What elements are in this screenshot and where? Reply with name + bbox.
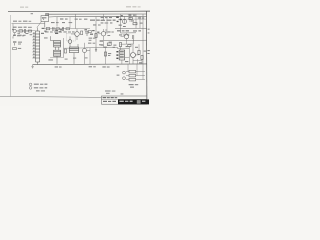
- transistor Q7: [131, 53, 136, 58]
- capacitor C6: [133, 35, 134, 44]
- label top mid-right rows: [101, 17, 113, 24]
- label lower mid: [65, 38, 96, 60]
- label right of Q3: [107, 31, 116, 45]
- capacitor C3: [62, 27, 63, 31]
- title block bar text: [119, 101, 145, 102]
- legend circle B: [29, 87, 32, 90]
- connector J1 pin stubs: [32, 34, 35, 58]
- wire feed line x70: [69, 17, 71, 28]
- wire Q3 leads: [98, 29, 106, 48]
- rectifier D1 cluster: [116, 15, 123, 22]
- wire Q7 leads: [133, 44, 139, 64]
- wire right lower verticals: [129, 44, 142, 64]
- wire drop x128: [127, 64, 129, 72]
- resistor R18: [107, 43, 111, 45]
- label row band: [13, 27, 32, 36]
- label right top: [117, 15, 144, 36]
- resistor R3: [46, 28, 50, 30]
- transistor Q2: [75, 32, 80, 37]
- transistor Q1: [13, 29, 16, 32]
- label mains: [55, 66, 58, 67]
- wire Q6 leads: [121, 33, 127, 44]
- wire vertical x103.5: [100, 14, 104, 20]
- label T1: [42, 17, 46, 18]
- resistor R12: [133, 23, 137, 25]
- title block corner mark: [121, 93, 124, 94]
- label row above input bus: [13, 21, 31, 22]
- legend text: [34, 84, 48, 92]
- title block row2 left text: [103, 101, 116, 102]
- title block divider: [102, 98, 147, 100]
- wire feed line x120: [120, 14, 122, 33]
- wire bus heater: [57, 15, 147, 17]
- transistor Q6: [124, 34, 128, 38]
- wire L1 leads: [70, 36, 78, 64]
- wire feed line x107: [106, 17, 108, 34]
- resistor R11: [129, 17, 132, 19]
- title block dark bar: [118, 99, 149, 104]
- wire left column drop: [12, 24, 14, 28]
- label cluster mid right: [88, 42, 112, 46]
- wire tie y57.6: [50, 57, 64, 59]
- capacitor C1: [23, 29, 28, 33]
- capacitor C4: [85, 32, 89, 36]
- title block outline: [102, 96, 147, 104]
- connector J1 pin labels: [33, 33, 34, 58]
- title block note text: [105, 90, 115, 94]
- title block row1 text: [103, 97, 118, 98]
- label dense cluster right: [84, 29, 99, 35]
- transistor Q5: [123, 20, 127, 24]
- ground symbol G1: [31, 65, 33, 69]
- wire Q1 leads: [12, 30, 19, 36]
- sheet frame (decorative): [0, 11, 150, 104]
- label R15: [18, 48, 21, 49]
- resistor R6: [81, 31, 83, 35]
- label right band: [102, 47, 115, 68]
- wire drop x143: [142, 64, 144, 80]
- choke L1 winding: [69, 47, 78, 53]
- page edge marks: [148, 29, 150, 34]
- wire vertical x63.5: [63, 38, 65, 58]
- tick under border: [31, 13, 33, 14]
- wire vertical x96 low: [95, 30, 97, 52]
- fuse F1: [129, 70, 136, 73]
- wire feed line x75: [75, 14, 77, 28]
- dashed block outline: [66, 33, 75, 41]
- wire bus y48 short: [64, 47, 89, 49]
- connector J1 ladder: [36, 31, 40, 62]
- resistor R2: [28, 30, 31, 32]
- wire Q8 leads: [85, 43, 91, 64]
- wire T1 to band: [37, 22, 42, 28]
- resistor R14: [138, 50, 140, 54]
- resistor R5: [66, 28, 70, 30]
- label right mid: [125, 46, 150, 62]
- resistor R1: [19, 30, 23, 32]
- transistor Q3: [101, 32, 105, 36]
- label T2: [44, 37, 53, 60]
- label C7: [18, 42, 22, 45]
- jack J2: [12, 28, 14, 30]
- label S1: [17, 35, 24, 36]
- capacitor C5: [100, 41, 103, 42]
- resistor R10: [64, 49, 66, 53]
- wire band bus y28.6: [44, 28, 90, 30]
- label under T1: [41, 28, 47, 34]
- transistor Q8: [83, 49, 87, 53]
- label row mid band: [45, 31, 75, 32]
- wire right verticals: [125, 14, 144, 64]
- resistor R4: [56, 28, 59, 30]
- title block dark bar slot: [137, 100, 141, 104]
- ground bus main: [33, 63, 147, 66]
- resistor R16: [141, 55, 143, 59]
- resistor R17: [104, 52, 106, 56]
- wire bus y47.6: [86, 47, 118, 49]
- dark patch fill marks: [116, 51, 118, 59]
- wire Q2 leads: [71, 29, 77, 40]
- pilot lamp P2: [123, 77, 126, 80]
- wire bus B+ top: [46, 13, 147, 15]
- capacitor C2: [53, 27, 54, 31]
- legend circle A: [29, 83, 32, 86]
- label dense cluster left: [55, 29, 62, 34]
- switch S1: [13, 35, 16, 39]
- label row under buses: [51, 18, 116, 25]
- label R17: [89, 45, 112, 68]
- faint title text above frame: [20, 6, 141, 8]
- resistor R13: [119, 43, 121, 47]
- transformer T2 winding A: [54, 41, 61, 47]
- wire T2 links: [51, 36, 59, 64]
- dense cluster dark patch: [119, 50, 124, 60]
- wire J1 to ground: [37, 62, 39, 64]
- capacitor C7: [13, 42, 16, 46]
- fuse F3: [129, 78, 136, 81]
- wire drop x105.5: [105, 48, 107, 65]
- transformer T2 winding B: [54, 50, 61, 56]
- wire drop x137: [136, 64, 138, 76]
- fuse F2: [129, 74, 136, 77]
- wire feed line x57: [56, 17, 58, 27]
- wire fuse links: [126, 72, 145, 80]
- wire right ties: [104, 28, 147, 40]
- wire input bus y23.5: [12, 22, 45, 24]
- wire band bus y30.5: [16, 30, 36, 32]
- resistor R7: [95, 34, 97, 38]
- label output block: [117, 62, 143, 87]
- wire feed line x96: [95, 17, 97, 30]
- transistor Q4: [68, 40, 72, 44]
- wire right lower ties: [117, 44, 142, 64]
- resistor R8: [88, 31, 91, 33]
- pilot lamp P1: [123, 71, 126, 74]
- transformer T1: [41, 14, 57, 28]
- ground symbol G2: [95, 48, 97, 51]
- wire drop x90: [89, 48, 91, 65]
- resistor R19: [128, 45, 131, 47]
- resistor R15: [13, 48, 17, 50]
- wire J1 top feed: [37, 28, 39, 31]
- wire segment right rail: [118, 18, 147, 20]
